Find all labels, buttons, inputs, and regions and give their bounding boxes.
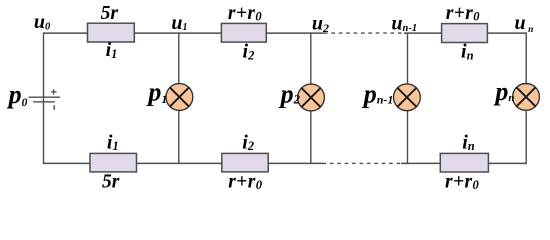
wire top rail segment from node un-1 to R3 xyxy=(404,32,443,34)
wire top rail right segment xyxy=(487,32,527,34)
wire left rail vertical with battery xyxy=(43,32,45,164)
wire lamp P1 branch vertical xyxy=(178,32,180,164)
svg-text:5r: 5r xyxy=(101,3,119,24)
svg-text:5r: 5r xyxy=(102,171,120,192)
lamp Pn-1 xyxy=(394,84,421,111)
resistor R2 (top, r+r0) xyxy=(221,23,266,42)
resistor R1 (top, 5r) xyxy=(88,23,135,42)
wire bottom rail dashed segment xyxy=(323,162,402,164)
wire top rail left segment xyxy=(44,32,89,34)
resistor R3 (top, r+r0) xyxy=(442,24,488,43)
wire bottom rail segment to R6 xyxy=(401,162,441,164)
wire bottom rail left segment xyxy=(44,162,92,164)
wire lamp P2 branch vertical xyxy=(310,32,312,164)
battery P0 plates xyxy=(29,97,60,102)
battery minus tick xyxy=(53,105,55,110)
wire right rail vertical xyxy=(525,32,527,164)
svg-text:+: + xyxy=(50,84,57,98)
lamp P1 xyxy=(166,84,193,111)
wire bottom rail right segment xyxy=(487,162,526,164)
lamp Pn xyxy=(513,84,540,111)
wire top rail segment between R1 and R2 xyxy=(134,32,223,34)
resistor R6 (bottom, r+r0) xyxy=(440,153,488,172)
resistor R5 (bottom, r+r0) xyxy=(222,153,268,172)
wire top rail dashed segment xyxy=(324,32,404,34)
lamp P2 xyxy=(298,84,325,111)
wire bottom rail segment from R5 to dashed part xyxy=(267,162,323,164)
wire lamp Pn-1 branch vertical xyxy=(407,32,409,164)
wire bottom rail segment between R4 and R5 xyxy=(136,162,224,164)
resistor R4 (bottom, 5r) xyxy=(90,153,137,172)
wire top rail segment from R2 to dashed part xyxy=(266,32,325,34)
